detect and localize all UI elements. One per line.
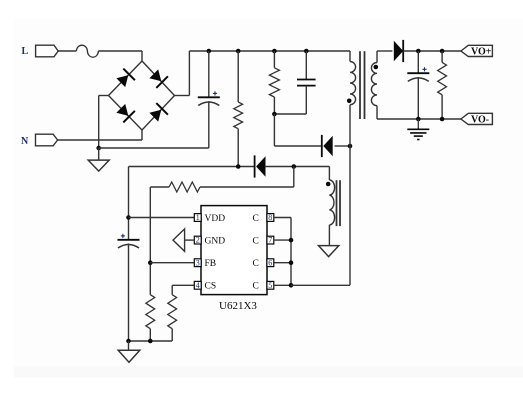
resistor R1 xyxy=(234,102,243,129)
node junction xyxy=(207,49,212,54)
wire xyxy=(328,225,330,246)
connector VO+ xyxy=(461,45,493,57)
svg-text:6: 6 xyxy=(268,258,272,267)
wire xyxy=(273,51,275,68)
node junction xyxy=(292,164,297,169)
wire xyxy=(99,95,109,97)
port L xyxy=(22,46,29,57)
wire xyxy=(290,218,292,286)
port N xyxy=(21,136,29,147)
inductor L1 (aux winding) xyxy=(329,180,334,225)
connector J1 (L) xyxy=(36,45,59,57)
wire xyxy=(189,50,350,52)
wire xyxy=(377,118,461,120)
wire xyxy=(265,166,330,168)
node primary phase dot xyxy=(347,99,352,104)
wire xyxy=(335,145,351,147)
wire xyxy=(376,51,378,63)
wire xyxy=(99,147,209,149)
node secondary phase dot xyxy=(374,65,379,70)
svg-text:C: C xyxy=(253,282,259,292)
label U621X3 xyxy=(219,300,257,312)
svg-text:2: 2 xyxy=(196,236,200,245)
wire xyxy=(417,51,419,73)
wire xyxy=(349,51,351,62)
connector J2 (N) xyxy=(36,134,58,146)
wire xyxy=(149,329,151,341)
node junction xyxy=(148,260,153,265)
wire xyxy=(328,167,330,181)
wire xyxy=(200,186,294,188)
wire xyxy=(293,167,295,188)
wire xyxy=(291,284,350,286)
wire xyxy=(171,285,173,294)
resistor R6 (CS) xyxy=(168,295,177,329)
pin label CS xyxy=(205,282,217,292)
svg-text:7: 7 xyxy=(268,236,272,245)
svg-text:1: 1 xyxy=(196,213,200,222)
diode D7 (VDD rectifier) xyxy=(254,155,266,177)
ground earth (output) xyxy=(407,119,429,140)
wire xyxy=(274,262,291,264)
wire xyxy=(171,329,173,341)
node junction xyxy=(148,339,153,344)
pin 4 box xyxy=(194,281,201,290)
svg-text:VDD: VDD xyxy=(205,214,226,224)
wire xyxy=(274,145,321,147)
svg-text:N: N xyxy=(21,136,29,147)
wire xyxy=(376,106,378,119)
wire xyxy=(274,113,306,115)
op-amp U1 body (U621X3) xyxy=(201,206,267,295)
node aux phase dot xyxy=(326,182,331,187)
svg-text:FB: FB xyxy=(205,259,217,269)
inductor L1 core xyxy=(337,180,341,226)
connector VO- xyxy=(461,113,493,125)
wire xyxy=(129,340,173,342)
pin 1 box xyxy=(194,213,201,222)
pin label VDD xyxy=(205,214,226,224)
node junction xyxy=(416,49,421,54)
pin label C (pin 5) xyxy=(253,282,259,292)
ground GND1 xyxy=(88,160,109,171)
wire xyxy=(109,96,143,131)
svg-text:8: 8 xyxy=(268,213,272,222)
pin label C (pin 7) xyxy=(253,237,259,247)
wire xyxy=(172,284,194,286)
wire xyxy=(237,129,239,167)
wire xyxy=(142,61,175,96)
node junction xyxy=(126,339,131,344)
node junction xyxy=(289,238,294,243)
wire xyxy=(185,239,195,241)
node junction xyxy=(440,49,445,54)
resistor R5 (FB divider) xyxy=(146,295,155,329)
wire xyxy=(58,139,142,141)
fuse F1 xyxy=(76,45,98,57)
ground GND2 xyxy=(118,350,140,362)
wire xyxy=(175,95,190,97)
ground GND3 xyxy=(319,246,339,257)
pin 7 box xyxy=(267,236,274,245)
diode D4 (bridge bottom-right) xyxy=(149,103,168,122)
node junction xyxy=(440,117,445,122)
pin 6 box xyxy=(267,258,274,267)
transformer T1 core xyxy=(360,51,365,119)
svg-text:C: C xyxy=(253,214,259,224)
wire xyxy=(150,186,169,188)
wire xyxy=(417,77,419,119)
wire xyxy=(58,50,76,52)
resistor R2 (snubber) xyxy=(269,68,279,97)
diode D6 (output rectifier) xyxy=(394,40,404,62)
svg-text:VO+: VO+ xyxy=(471,47,492,58)
wire xyxy=(305,86,307,114)
wire xyxy=(208,51,210,97)
diode D1 (bridge top-left) xyxy=(116,69,134,88)
wire xyxy=(128,167,130,240)
wire xyxy=(149,187,151,295)
node junction xyxy=(348,144,353,149)
svg-text:GND: GND xyxy=(205,237,226,247)
svg-text:4: 4 xyxy=(196,281,200,290)
node junction xyxy=(236,49,241,54)
wire xyxy=(377,50,392,52)
pin 5 box xyxy=(267,281,274,290)
node junction xyxy=(272,112,277,117)
capacitor C3 (output) xyxy=(407,67,429,81)
wire xyxy=(349,105,351,286)
pin label C (pin 8) xyxy=(253,214,259,224)
svg-text:3: 3 xyxy=(196,258,200,267)
resistor R3 (load) xyxy=(438,62,447,94)
node junction xyxy=(289,283,294,288)
wire xyxy=(141,130,143,140)
wire xyxy=(128,341,130,350)
pin label GND xyxy=(205,237,226,247)
node junction xyxy=(126,215,131,220)
node junction xyxy=(304,49,309,54)
svg-text:C: C xyxy=(253,237,259,247)
wire xyxy=(441,95,443,119)
wire xyxy=(273,114,275,146)
diode D5 (clamp) xyxy=(321,135,333,157)
wire xyxy=(109,61,143,96)
wire xyxy=(98,96,100,149)
wire xyxy=(142,96,175,131)
wire xyxy=(98,50,142,52)
svg-text:5: 5 xyxy=(268,281,272,290)
pin label FB xyxy=(205,259,217,269)
capacitor C1 xyxy=(198,91,220,105)
svg-text:CS: CS xyxy=(205,282,217,292)
svg-text:VO-: VO- xyxy=(471,115,489,126)
node PGND junction xyxy=(96,146,101,151)
pin 2 box xyxy=(194,236,201,245)
wire xyxy=(403,50,461,52)
diode D3 (bridge bottom-left) xyxy=(116,104,134,123)
node junction xyxy=(272,49,277,54)
pin 8 box xyxy=(267,213,274,222)
wire xyxy=(305,51,307,80)
wire xyxy=(128,244,130,342)
resistor R4 (aux feed) xyxy=(169,182,200,192)
wire xyxy=(274,217,291,219)
node junction xyxy=(416,117,421,122)
node junction xyxy=(236,164,241,169)
diode D2 (bridge top-right) xyxy=(149,69,168,88)
capacitor C4 (VDD) xyxy=(118,234,140,248)
wire xyxy=(274,284,291,286)
svg-text:C: C xyxy=(253,259,259,269)
node junction xyxy=(289,260,294,265)
pin 3 box xyxy=(194,258,201,267)
wire xyxy=(441,51,443,62)
wire xyxy=(141,51,143,61)
pin label C (pin 6) xyxy=(253,259,259,269)
capacitor C2 (snubber) xyxy=(297,80,316,86)
wire xyxy=(150,262,194,264)
wire xyxy=(98,148,100,160)
transformer T1 primary winding xyxy=(350,62,356,105)
ground port arrow (GND pin2) xyxy=(173,229,185,251)
wire xyxy=(273,97,275,114)
wire xyxy=(188,51,190,96)
wire xyxy=(208,101,210,148)
svg-text:L: L xyxy=(22,46,29,57)
wire xyxy=(274,239,291,241)
svg-text:U621X3: U621X3 xyxy=(219,300,257,312)
wire xyxy=(129,217,195,219)
transformer T1 secondary winding xyxy=(371,63,377,106)
wire xyxy=(129,166,255,168)
wire xyxy=(237,51,239,102)
